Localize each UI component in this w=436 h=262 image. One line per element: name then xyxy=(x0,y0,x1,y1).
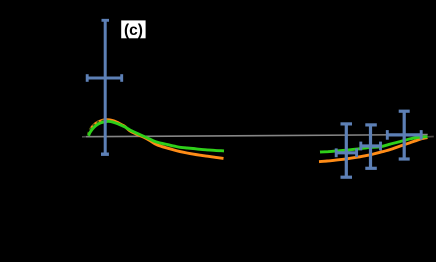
svg-text:(c): (c) xyxy=(124,22,143,39)
